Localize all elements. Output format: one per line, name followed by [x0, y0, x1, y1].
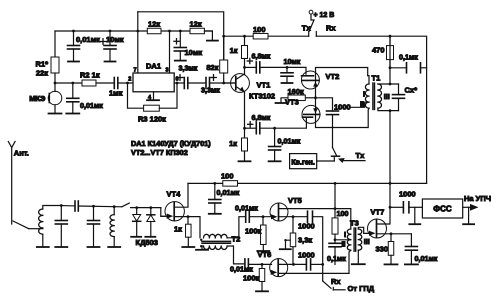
- label VT1: [257, 81, 271, 90]
- svg-text:3: 3: [166, 68, 169, 74]
- node nB3: [389, 35, 392, 38]
- node emit node: [243, 127, 246, 130]
- ground r100k2 gnd: [256, 282, 268, 292]
- wire emitter down: [244, 92, 246, 128]
- capacitor C 6.8mk a: [256, 62, 260, 73]
- svg-text:Т1: Т1: [372, 74, 381, 83]
- label 22k: [36, 69, 48, 78]
- wire t1 prim top: [368, 76, 369, 84]
- wire pin6 wire: [174, 82, 184, 84]
- chassis ground 160k: [276, 98, 289, 103]
- wire c01t3 bottom: [334, 247, 336, 265]
- wire c railc stub: [214, 183, 216, 199]
- wire pin4 lead: [153, 92, 155, 100]
- wire r1k4 lead: [187, 217, 189, 225]
- wire t3 top lead: [350, 209, 352, 229]
- label 12k 2: [190, 20, 202, 29]
- ground t2 gnd: [196, 249, 208, 251]
- capacitor C 0.01 mic: [67, 98, 79, 102]
- polarity plus c33a plus: [177, 75, 183, 81]
- capacitor C 10mk railA: [104, 46, 116, 50]
- svg-text:+ 12 В: + 12 В: [314, 12, 335, 19]
- node n rail12: [389, 182, 392, 185]
- label Tx top: [302, 23, 312, 32]
- wire pin7 riser: [137, 12, 139, 73]
- wire filter rail 2: [78, 205, 122, 208]
- svg-text:1000: 1000: [399, 190, 416, 199]
- label R1*: [35, 60, 48, 69]
- svg-text:1000: 1000: [298, 222, 315, 231]
- wire 3.3k bottom: [292, 247, 294, 265]
- svg-text:0,01мк: 0,01мк: [230, 265, 253, 274]
- capacitor C series f: [75, 201, 78, 211]
- label Rx top: [326, 23, 336, 32]
- wire 1k lead2: [244, 59, 246, 68]
- wire tap wire: [335, 239, 351, 241]
- polarity plus cA2 plus: [100, 39, 106, 45]
- wire vt6 cap to tie: [311, 263, 323, 265]
- wire rail B right: [316, 36, 426, 183]
- wire cA2 stub: [109, 31, 111, 46]
- ground c001vt7 gnd: [405, 250, 418, 264]
- node col node: [243, 66, 246, 69]
- label 1k vt4: [174, 225, 182, 234]
- capacitor C 10mk vt2: [281, 73, 293, 76]
- wire t3 sec top: [358, 227, 368, 233]
- wire c01 wire r: [421, 67, 427, 69]
- capacitor C 0.01 rail: [209, 200, 221, 204]
- node nA2: [109, 30, 112, 33]
- wire 470 lead: [389, 36, 391, 45]
- svg-text:DA1: DA1: [146, 62, 161, 71]
- node nF1: [60, 204, 63, 207]
- wire 470 lead2: [389, 60, 391, 68]
- label R2 1k: [80, 71, 100, 80]
- resistor R 3.3k: [290, 233, 296, 247]
- resistor R 100 t3: [332, 218, 338, 234]
- svg-text:1к: 1к: [230, 46, 238, 55]
- ground cF2 gnd: [88, 224, 100, 247]
- label 0,01мк c1: [80, 101, 103, 110]
- label III t1: [384, 92, 390, 101]
- svg-text:VT4: VT4: [167, 190, 182, 199]
- ground 1k e gnd: [239, 151, 251, 161]
- label pin2: [128, 77, 131, 83]
- capacitor C 0.1mk top: [407, 63, 421, 73]
- node mic node: [54, 82, 57, 85]
- label 12k 1: [148, 20, 160, 29]
- inductor T1 secondary III: [378, 84, 382, 108]
- wire R1 top lead: [54, 31, 56, 57]
- svg-text:0,01мк: 0,01мк: [80, 101, 103, 110]
- wire mic to R2: [55, 82, 82, 84]
- node n 3.3k bot: [292, 263, 295, 266]
- wire cap to carrier: [332, 115, 334, 128]
- label pin7: [134, 68, 137, 74]
- svg-text:160к: 160к: [288, 87, 305, 96]
- inductor L2: [110, 215, 114, 237]
- resistor R 470: [387, 46, 394, 60]
- node nA1: [72, 30, 75, 33]
- wire R3 left: [128, 83, 144, 108]
- wire vt5 cap to tie: [313, 217, 323, 265]
- svg-text:0,1мк: 0,1мк: [399, 53, 418, 62]
- ground cF1 gnd: [55, 224, 67, 247]
- op-amp DA1: [133, 73, 174, 92]
- switch Tx carrier: [332, 148, 340, 162]
- label Ant: [14, 149, 29, 158]
- node n vt4 src: [187, 215, 190, 218]
- node nB1: [222, 35, 225, 38]
- svg-text:100к: 100к: [243, 274, 260, 283]
- node n3: [168, 30, 171, 33]
- wire L2 top: [113, 207, 115, 215]
- svg-text:0,01мк: 0,01мк: [217, 188, 240, 197]
- capacitor C 1mk: [114, 78, 118, 89]
- wire tie down: [322, 264, 324, 281]
- svg-text:Rx: Rx: [331, 277, 341, 286]
- transistor VT7: [368, 219, 387, 238]
- wire cF1 stub: [60, 206, 62, 221]
- core T3: [354, 228, 356, 251]
- label KD503: [136, 238, 158, 247]
- label I t1: [363, 90, 365, 99]
- capacitor C 1000 vt5: [308, 211, 313, 222]
- capacitor C 0.01 vt7: [405, 247, 417, 251]
- resistor R 1k emit: [242, 138, 248, 151]
- wire t1 prim bottom: [367, 108, 370, 127]
- ground c railc gnd: [209, 203, 221, 214]
- wire vt4 gate wire: [161, 215, 166, 217]
- resistor R 1k VT1: [242, 46, 248, 59]
- node n vt5 gate: [262, 215, 265, 218]
- ground cA2 gnd: [105, 49, 116, 62]
- node pin6 node: [176, 82, 179, 85]
- wire 12k2 to gnd: [204, 31, 212, 40]
- wire t3 sec bottom: [357, 250, 359, 264]
- svg-text:R2 1к: R2 1к: [80, 71, 100, 80]
- svg-text:R3 120к: R3 120к: [138, 115, 166, 124]
- label 1000 vt5: [298, 222, 315, 231]
- wire 3.3k lead: [292, 217, 294, 233]
- polarity plus cA3 plus: [174, 39, 179, 44]
- svg-text:I: I: [363, 90, 365, 99]
- svg-text:1000: 1000: [334, 103, 351, 112]
- wire c01 wire l: [390, 67, 407, 69]
- wire cA3 stub: [179, 31, 181, 48]
- ground c1 gnd: [66, 102, 79, 114]
- ground mic gnd: [49, 105, 62, 114]
- label pin3: [166, 68, 169, 74]
- svg-text:От ГПД: От ГПД: [348, 284, 375, 293]
- resistor R1: [51, 57, 59, 73]
- wire r100k2 lead: [261, 264, 263, 272]
- label 1000 t1: [334, 103, 351, 112]
- label OtGPD: [348, 284, 375, 293]
- svg-text:3,3к: 3,3к: [298, 236, 312, 245]
- diode VD1 KD503: [133, 208, 141, 237]
- label 330: [376, 245, 389, 254]
- resistor R 330: [388, 242, 394, 256]
- wire pin3 riser: [169, 31, 171, 73]
- label pin4: [148, 95, 152, 101]
- label 0,01mk vt6: [230, 265, 253, 274]
- capacitor C 1000 fss: [403, 202, 409, 213]
- capacitor C 3.3mk b: [206, 78, 210, 89]
- label II t3: [342, 240, 346, 249]
- label Tx mid: [356, 151, 366, 160]
- label 3,3mk a: [179, 64, 198, 73]
- svg-text:1мк: 1мк: [109, 89, 123, 98]
- svg-text:0,1мк: 0,1мк: [327, 254, 346, 263]
- wire 82k lead2: [223, 73, 225, 83]
- capacitor C f1: [55, 221, 67, 225]
- node n470: [389, 66, 392, 69]
- wire R1 bottom to mic node: [54, 73, 56, 92]
- svg-text:VT7: VT7: [371, 208, 385, 217]
- label 0,01mk vt3: [278, 137, 301, 146]
- svg-text:100к: 100к: [245, 227, 262, 236]
- wire vt5 source: [279, 216, 308, 218]
- capacitor C 0.01 railA: [68, 46, 80, 50]
- label 100k a: [245, 227, 262, 236]
- svg-text:22к: 22к: [36, 69, 48, 78]
- switch band: [122, 203, 130, 207]
- label VT7: [371, 208, 385, 217]
- wire sec down: [389, 111, 391, 208]
- ground 12k2 gnd: [207, 40, 218, 42]
- wire cx bottom: [398, 98, 400, 110]
- node n r100t3 top: [334, 182, 337, 185]
- label 100 tx: [253, 25, 266, 34]
- wire c001vt3 stub: [274, 128, 276, 146]
- generator Kv.gen box: [290, 154, 317, 169]
- node n 330: [390, 232, 393, 235]
- wire t1 tap: [351, 102, 369, 107]
- wire t3 prim bottom: [349, 250, 351, 273]
- label +12V: [314, 12, 335, 19]
- label 0,01mk A: [76, 35, 100, 44]
- wire 1k lead: [244, 36, 246, 45]
- wire vt6 gate wire: [248, 263, 271, 265]
- svg-text:Сх*: Сх*: [405, 86, 418, 95]
- label 0,01mk vt5: [235, 204, 258, 213]
- ground d1 gnd: [131, 236, 141, 238]
- svg-text:I: I: [344, 230, 346, 239]
- wire R2 to 1mk: [96, 82, 114, 84]
- wire t2 sec right: [227, 246, 245, 264]
- label I t3: [344, 230, 346, 239]
- node n t3 top: [334, 207, 337, 210]
- node pin2 node: [126, 82, 129, 85]
- ground L2 gnd: [108, 237, 120, 247]
- ground L1 gnd: [37, 234, 49, 247]
- node n 10mk3: [286, 66, 289, 69]
- wire t1 sec bottom: [378, 108, 399, 110]
- label caption2: [131, 148, 188, 157]
- svg-text:2: 2: [128, 77, 131, 83]
- wire 160k right: [305, 97, 315, 99]
- svg-text:6,8мк: 6,8мк: [252, 52, 271, 61]
- label Rx bot: [331, 277, 341, 286]
- wire c10mk3 stub: [286, 67, 288, 72]
- wire vt3 source: [316, 114, 368, 127]
- ground pin4 gnd: [147, 99, 159, 101]
- wire to vt4 gate: [161, 208, 165, 217]
- wire filter rail 3: [131, 207, 161, 209]
- inductor T1 primary: [365, 84, 369, 108]
- capacitor C f2: [88, 221, 100, 225]
- wire fss out: [463, 206, 470, 208]
- polarity plus c33b plus: [211, 75, 217, 81]
- wire collector up: [244, 67, 246, 74]
- label 160k: [288, 87, 305, 96]
- svg-text:II: II: [342, 240, 346, 249]
- label 1000 vt6: [298, 251, 315, 260]
- wire emit to cap: [245, 127, 257, 129]
- wire vt6 source: [279, 272, 349, 274]
- antenna: [8, 142, 15, 225]
- label 100 t3: [337, 209, 349, 218]
- ground c10mk3 gnd: [282, 76, 293, 83]
- wire r100t3 lead: [334, 183, 336, 218]
- wire vt4 drain: [174, 183, 188, 207]
- wire vt6 mid wire: [278, 263, 306, 265]
- label 100 rail: [221, 172, 234, 181]
- wire cF2 stub: [93, 206, 95, 220]
- diode VD2 KD503: [147, 208, 155, 237]
- svg-text:ФСС: ФСС: [433, 205, 452, 214]
- wire c001vt7: [410, 234, 412, 247]
- node t2 dot2: [200, 245, 202, 247]
- resistor R 1k vt4: [186, 224, 192, 237]
- node n 0.01 vt3: [273, 127, 276, 130]
- label VT6: [258, 250, 272, 259]
- wire cx top: [398, 84, 400, 95]
- label VT4: [167, 190, 182, 199]
- capacitor C 0.1 t3: [329, 243, 341, 247]
- wire ant to coil: [29, 228, 43, 230]
- wire 1k e lead: [244, 128, 246, 138]
- wire rail A: [55, 30, 212, 32]
- svg-text:Кв.ген.: Кв.ген.: [291, 159, 315, 166]
- wire between 3.3: [188, 82, 206, 84]
- node nA3: [179, 30, 182, 33]
- svg-text:R1*: R1*: [35, 60, 48, 69]
- polarity plus c68a plus: [247, 58, 252, 63]
- ground r330 gnd: [385, 255, 398, 264]
- label KT3102: [249, 92, 275, 101]
- capacitor C 1000 vt6: [306, 259, 310, 270]
- wire kvgen wire: [317, 160, 335, 162]
- capacitor C 0.01 vt6: [245, 259, 249, 270]
- node nF2: [92, 205, 95, 208]
- svg-text:1к: 1к: [229, 139, 237, 148]
- svg-text:7: 7: [134, 68, 137, 74]
- ground cA1 gnd: [68, 49, 79, 62]
- wire 1mk to pin2: [118, 82, 133, 84]
- resistor R 82k: [220, 60, 228, 73]
- ground t3 gnd: [352, 263, 365, 265]
- svg-text:Tx: Tx: [356, 151, 366, 160]
- wire sec to if: [389, 36, 391, 84]
- wire r100t3 lead2: [334, 234, 336, 243]
- svg-text:100: 100: [221, 172, 234, 181]
- label NaUPCH: [464, 194, 491, 203]
- label VT5: [288, 196, 302, 205]
- capacitor C 6.8mk b: [256, 123, 260, 134]
- svg-text:82к: 82к: [206, 63, 218, 72]
- svg-text:VT2...VT7 КП302: VT2...VT7 КП302: [131, 148, 188, 157]
- svg-text:0,01мк: 0,01мк: [278, 137, 301, 146]
- capacitor C Cx: [393, 95, 405, 99]
- label III t3: [364, 237, 370, 246]
- wire vt7 drain: [377, 207, 391, 224]
- label VT2: [326, 72, 340, 81]
- switch Tx/Rx supply: [309, 10, 317, 36]
- node mid node: [314, 96, 317, 99]
- transistor VT4: [165, 202, 184, 221]
- inductor T3 primary: [347, 229, 351, 250]
- svg-text:КД503: КД503: [136, 238, 158, 247]
- label 1mk: [109, 89, 123, 98]
- label T2 lbl: [232, 235, 241, 244]
- svg-text:КТ3102: КТ3102: [249, 92, 275, 101]
- node nD1: [135, 206, 138, 209]
- ground cA3 gnd: [175, 60, 186, 62]
- resistor R 160k: [288, 95, 305, 101]
- capacitor C 1000 t1: [327, 111, 339, 115]
- svg-text:10мк: 10мк: [185, 48, 203, 57]
- label 82k: [206, 63, 218, 72]
- transistor VT3: [302, 105, 320, 123]
- label 1k emit: [229, 139, 237, 148]
- svg-text:На УПЧ: На УПЧ: [464, 194, 491, 203]
- ground fss gnd r: [463, 207, 474, 224]
- svg-text:VT2: VT2: [326, 72, 340, 81]
- wire vt4 source: [174, 217, 200, 238]
- label 0.1mk top: [399, 53, 418, 62]
- svg-text:12к: 12к: [148, 20, 160, 29]
- wire c1 stub: [72, 83, 74, 98]
- label 6,8mk a: [252, 52, 271, 61]
- wire vt5 gate wire: [249, 216, 271, 218]
- transistor VT6: [270, 259, 288, 277]
- resistor R 100 tx: [253, 33, 268, 39]
- node nF3: [113, 205, 116, 208]
- resistor Rf1 12k: [147, 28, 161, 34]
- label 1k vt1: [230, 46, 238, 55]
- label MKE: [29, 94, 46, 103]
- inductor L1: [39, 209, 43, 234]
- label 0,01mk vt7: [415, 254, 438, 263]
- switch antenna: [13, 221, 29, 229]
- svg-text:МКЭ: МКЭ: [29, 94, 46, 103]
- label 10mk A: [106, 35, 124, 44]
- wire 82k lead: [223, 36, 225, 60]
- wire fss in2: [409, 206, 423, 208]
- label 100k b: [243, 274, 260, 283]
- polarity plus c68b plus: [248, 122, 253, 127]
- svg-text:VT6: VT6: [258, 250, 272, 259]
- svg-text:VT3: VT3: [285, 98, 299, 107]
- transistor VT2: [301, 71, 319, 89]
- ground c001vt3 gnd: [269, 150, 281, 161]
- node n vt6 gate: [261, 263, 264, 266]
- core T2: [202, 241, 231, 243]
- label 3,3mk b: [201, 86, 220, 95]
- resistor R2: [82, 80, 96, 86]
